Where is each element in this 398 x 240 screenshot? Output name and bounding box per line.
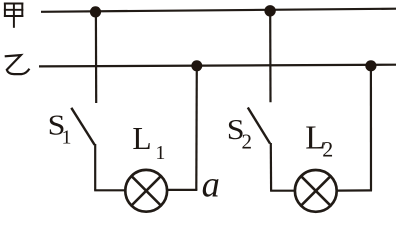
svg-text:a: a	[202, 164, 220, 205]
svg-text:L: L	[132, 121, 151, 156]
svg-text:2: 2	[242, 129, 253, 153]
svg-text:1: 1	[155, 142, 165, 164]
svg-text:1: 1	[62, 127, 72, 149]
svg-text:2: 2	[322, 136, 333, 161]
